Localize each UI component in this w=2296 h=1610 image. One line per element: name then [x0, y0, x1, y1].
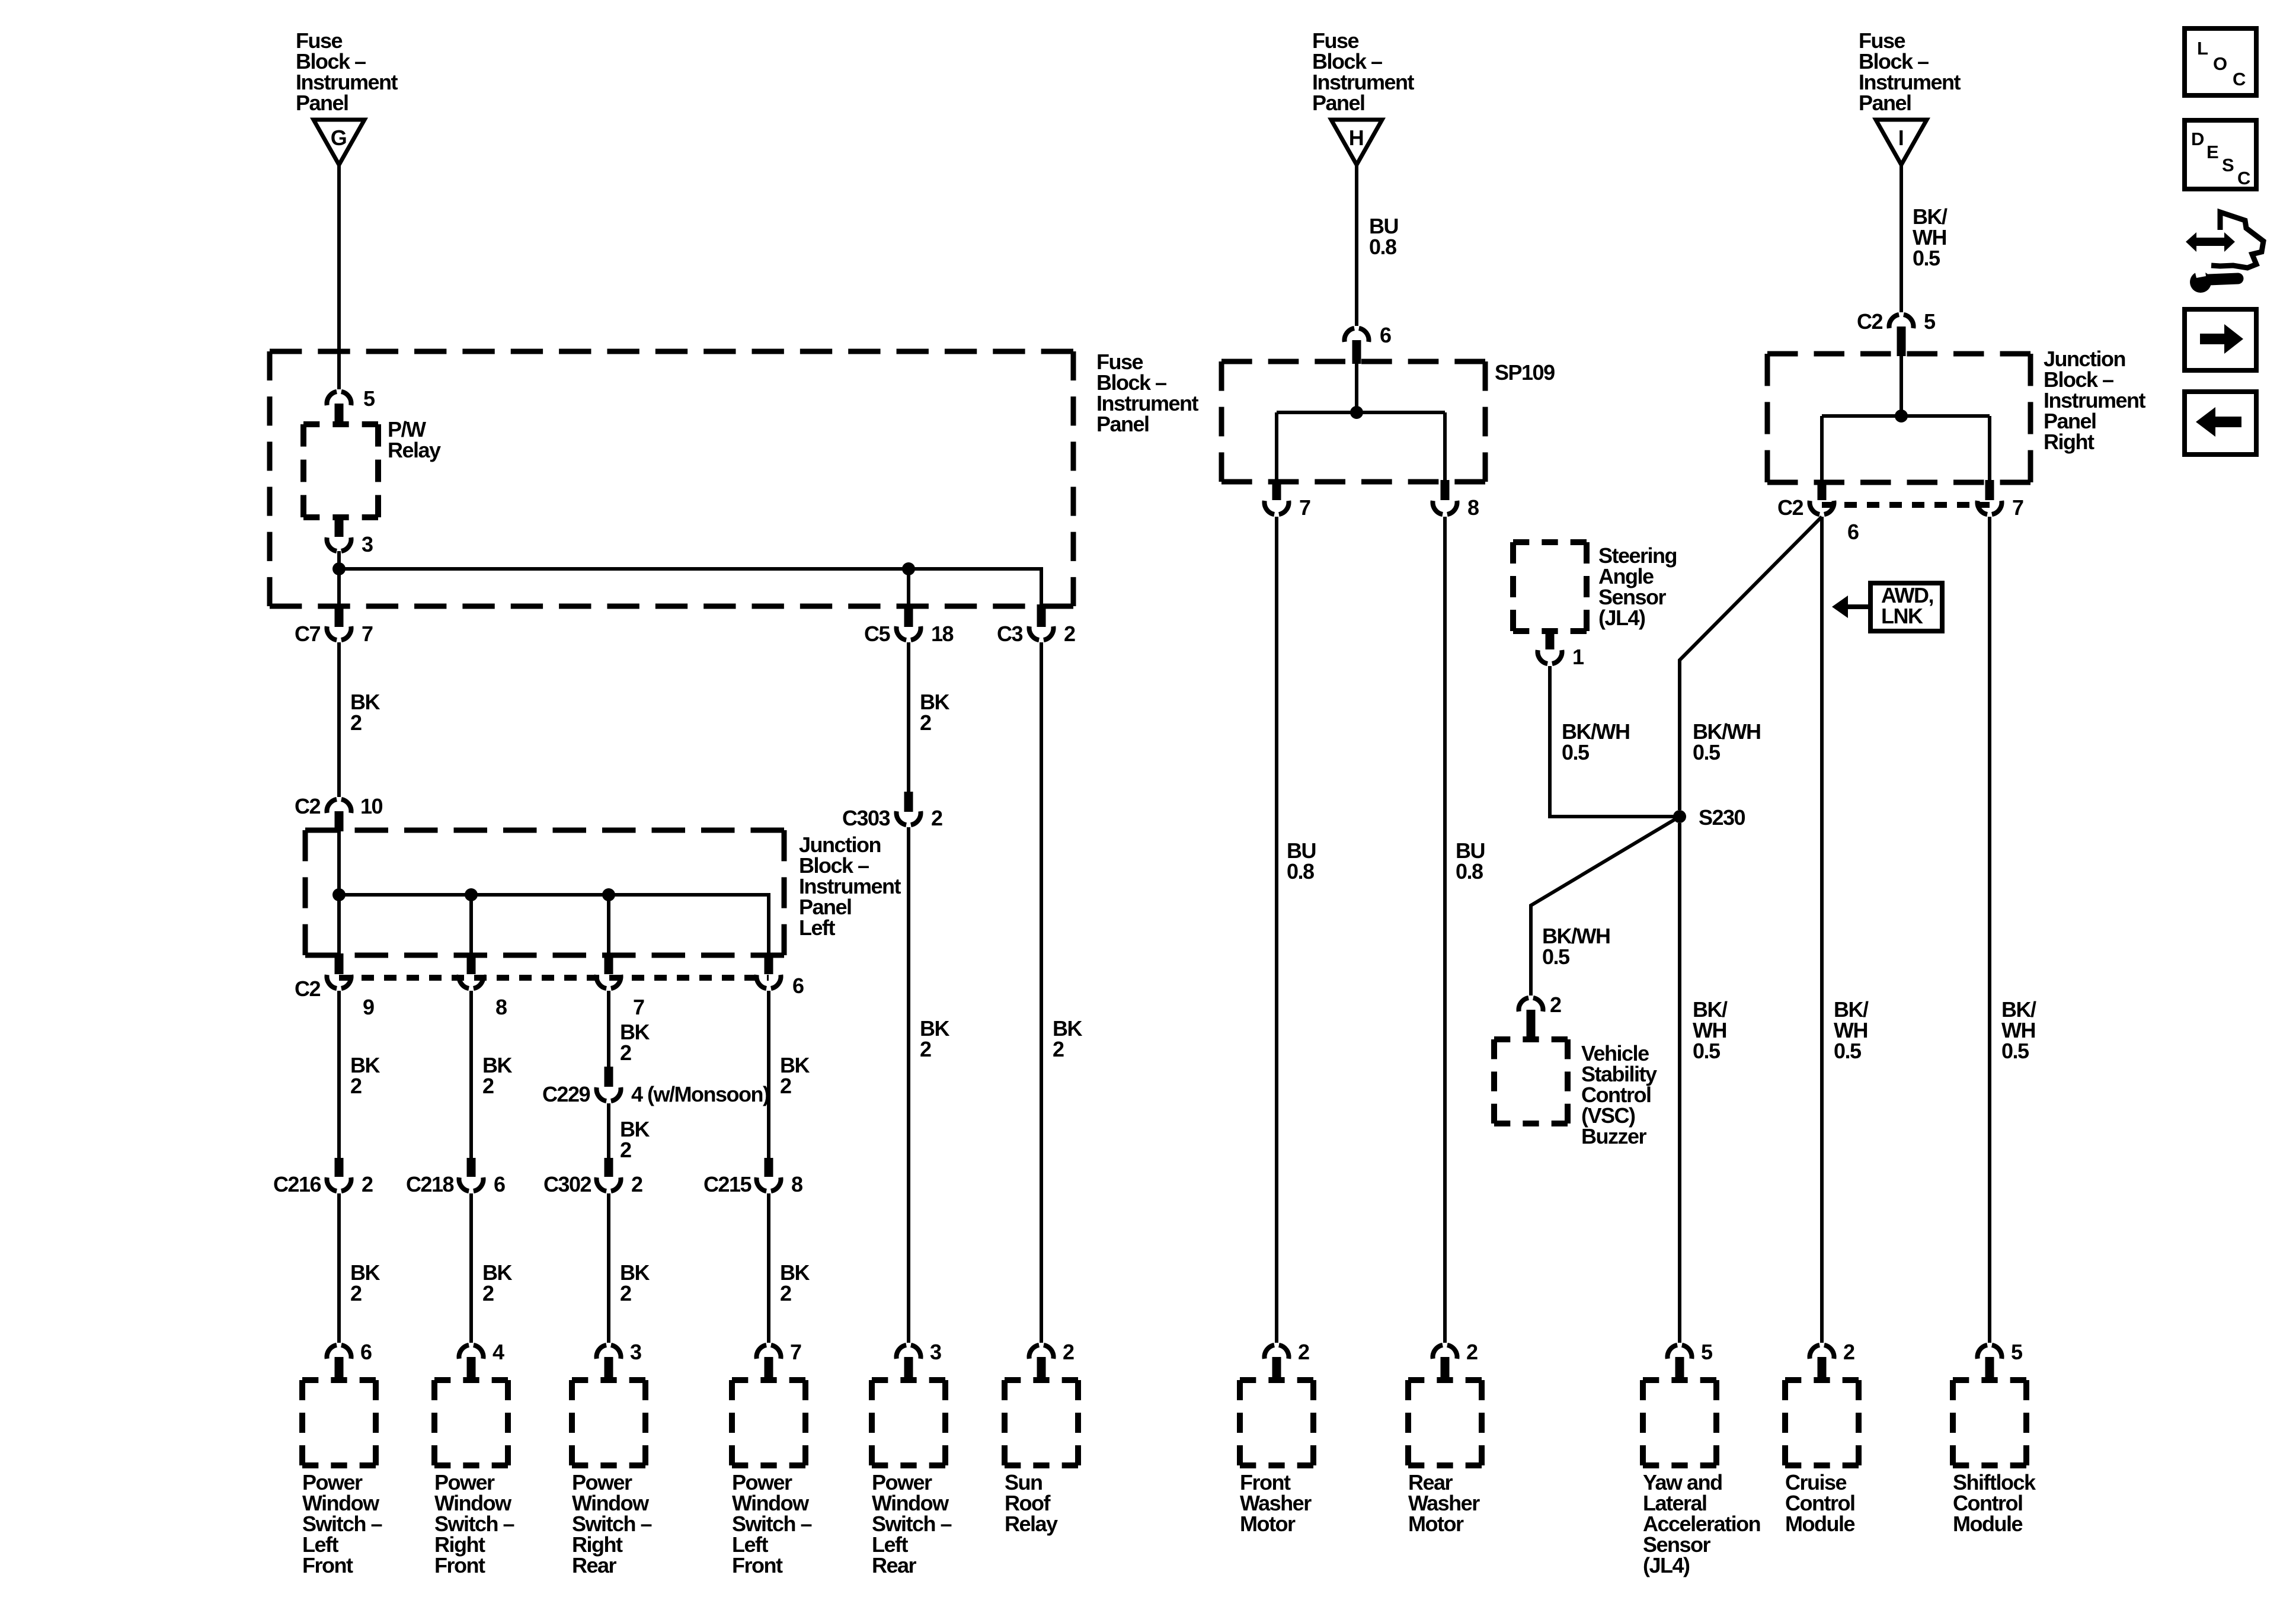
shiftlock control module dashed box: [1953, 1380, 2026, 1465]
connector pin 3 into power window switch - right rear: [596, 1340, 641, 1377]
svg-text:I: I: [1898, 126, 1904, 150]
node dot left bus col2: [465, 888, 478, 901]
P/W relay dashed box: [303, 424, 378, 517]
svg-text:2: 2: [362, 1172, 373, 1196]
wire C7 to C2 pin10, BK 2: [339, 642, 380, 797]
connector pin 7 out of SP109: [1264, 480, 1310, 520]
off-page connector triangle I: [1876, 120, 1927, 165]
node junction dot at C5 branch: [902, 562, 915, 575]
svg-text:2: 2: [780, 1074, 791, 1098]
power window switch - left front (2) label: [732, 1470, 812, 1577]
svg-text:0.5: 0.5: [1562, 740, 1590, 764]
connector C3 pin 2: [997, 604, 1075, 646]
svg-text:Front: Front: [434, 1553, 485, 1577]
svg-text:5: 5: [363, 386, 375, 411]
power window switch - right front label: [434, 1470, 514, 1577]
svg-text:5: 5: [2011, 1340, 2023, 1364]
diagonal wire C2-6 to S230, BK/WH 0.5: [1680, 517, 1822, 810]
svg-text:Buzzer: Buzzer: [1581, 1124, 1647, 1148]
SP109 right branch: [1443, 412, 1447, 482]
connector pin 6 into power window switch - left front: [327, 1340, 372, 1377]
wire SP109-8 to rear washer motor, BU 0.8: [1445, 517, 1485, 1343]
svg-text:8: 8: [1467, 495, 1479, 520]
connector pin 5 into shiftlock control module: [1977, 1340, 2023, 1377]
svg-text:2: 2: [920, 710, 931, 735]
wire SP109-7 to front washer motor, BU 0.8: [1277, 517, 1316, 1343]
connector C2 pin 10 into junction block left: [295, 794, 383, 831]
wire col3 C2 to C229, BK 2: [609, 991, 650, 1067]
connector C2 pin 5 into junction block right: [1857, 309, 1936, 356]
svg-text:2: 2: [620, 1281, 631, 1305]
svg-text:0.5: 0.5: [2001, 1039, 2029, 1063]
svg-text:6: 6: [360, 1340, 372, 1364]
svg-text:C2: C2: [295, 977, 320, 1001]
wire x=1297 to switch, BK 2: [769, 1193, 810, 1343]
svg-text:S230: S230: [1699, 805, 1745, 830]
svg-text:E: E: [2207, 142, 2218, 162]
svg-text:Panel: Panel: [1859, 91, 1911, 115]
P/W relay label: [388, 417, 441, 462]
connector pin 1 out of steering angle sensor: [1537, 629, 1584, 669]
svg-text:2: 2: [620, 1041, 631, 1065]
steering angle sensor label: [1598, 543, 1677, 630]
wire relay pin3 to internal bus: [337, 551, 341, 569]
svg-text:0.5: 0.5: [1693, 1039, 1721, 1063]
connector pin 2 into rear washer motor: [1432, 1340, 1478, 1377]
sun roof relay label: [1005, 1470, 1058, 1536]
svg-text:SP109: SP109: [1495, 360, 1555, 385]
svg-text:0.5: 0.5: [1913, 246, 1940, 270]
junction block - instrument panel left dashed box: [305, 830, 784, 955]
SP109 internal bus: [1277, 411, 1445, 414]
svg-text:Motor: Motor: [1240, 1512, 1296, 1536]
wire C2 pin10 to left bus: [337, 831, 341, 895]
wire steering sensor to S230, BK/WH 0.5: [1550, 666, 1680, 817]
wire S230 to yaw sensor, BK/ WH 0.5: [1680, 823, 1728, 1343]
svg-text:H: H: [1349, 126, 1364, 150]
junction block right right branch: [1988, 416, 1991, 482]
svg-text:Module: Module: [1785, 1512, 1854, 1536]
yaw and lateral acceleration sensor label: [1643, 1470, 1760, 1577]
fuse block instrument panel label (middle, ref H): [1312, 28, 1415, 115]
power window switch - left rear dashed box: [872, 1380, 945, 1465]
wire x=795 to switch, BK 2: [471, 1193, 512, 1343]
svg-text:C: C: [2237, 168, 2250, 188]
wire C5 to C303, BK 2: [909, 642, 949, 793]
DESC legend box: [2185, 120, 2256, 189]
svg-text:2: 2: [1063, 1340, 1074, 1364]
wire into SP109 to node: [1355, 360, 1358, 412]
connector C216 pin 2: [273, 1158, 373, 1196]
wire bus to fuse block bottom at C7: [337, 569, 341, 606]
svg-text:C2: C2: [1857, 309, 1882, 334]
wire bus down col3: [607, 895, 610, 955]
junction block - instrument panel right dashed box: [1767, 354, 2030, 482]
power window switch - right rear label: [572, 1470, 652, 1577]
front washer motor label: [1240, 1470, 1312, 1536]
node splice dot in SP109: [1350, 406, 1363, 419]
connector C2 pin 8: [459, 953, 507, 1019]
svg-text:2: 2: [780, 1281, 791, 1305]
svg-text:Panel: Panel: [1096, 412, 1149, 436]
junction block right internal bus: [1822, 414, 1990, 418]
svg-text:7: 7: [790, 1340, 801, 1364]
svg-text:0.5: 0.5: [1834, 1039, 1862, 1063]
svg-text:2: 2: [1053, 1037, 1064, 1061]
svg-text:O: O: [2213, 53, 2227, 74]
svg-text:3: 3: [362, 532, 373, 556]
svg-text:2: 2: [931, 806, 942, 830]
svg-text:6: 6: [1847, 520, 1859, 544]
svg-text:Panel: Panel: [296, 91, 348, 115]
svg-text:5: 5: [1701, 1340, 1713, 1364]
connector C2 pin 7: [596, 953, 644, 1019]
svg-text:C229: C229: [542, 1082, 590, 1106]
fuse block instrument panel label (left, off-page ref G): [296, 28, 398, 115]
cruise control module dashed box: [1785, 1380, 1859, 1465]
svg-text:3: 3: [930, 1340, 941, 1364]
svg-text:10: 10: [360, 794, 383, 818]
svg-text:2: 2: [1843, 1340, 1854, 1364]
wire col4 C2 to C215, BK 2: [769, 991, 810, 1158]
VSC buzzer label: [1581, 1041, 1657, 1148]
svg-text:L: L: [2197, 38, 2208, 59]
wire x=572 to switch, BK 2: [339, 1193, 380, 1343]
svg-text:7: 7: [1299, 495, 1310, 520]
svg-text:C215: C215: [703, 1172, 752, 1196]
svg-text:2: 2: [350, 1281, 362, 1305]
svg-text:2: 2: [920, 1037, 931, 1061]
junction block right left branch: [1820, 416, 1824, 482]
off-page connector triangle G: [314, 120, 364, 165]
vehicle stability control buzzer dashed box: [1494, 1039, 1568, 1124]
svg-text:2: 2: [620, 1138, 631, 1162]
connector C2 pin 6 out: [1777, 480, 1859, 544]
svg-text:Module: Module: [1953, 1512, 2022, 1536]
svg-text:Rear: Rear: [572, 1553, 617, 1577]
right arrow legend box: [2185, 309, 2256, 370]
svg-text:4: 4: [493, 1340, 504, 1364]
svg-text:Panel: Panel: [1312, 91, 1365, 115]
svg-text:2: 2: [350, 1074, 362, 1098]
sun roof relay dashed box: [1005, 1380, 1078, 1465]
node dot junction block right: [1895, 409, 1908, 422]
connector pin 5 into yaw and lateral acceleration sensor: [1667, 1340, 1713, 1377]
wire from triangle H to splice pack, BU 0.8: [1357, 165, 1398, 326]
connector pin 6 into SP109: [1344, 323, 1391, 364]
node junction dot at relay branch: [332, 562, 346, 575]
svg-text:LNK: LNK: [1881, 604, 1923, 628]
cruise control module label: [1785, 1470, 1854, 1536]
svg-text:8: 8: [791, 1172, 802, 1196]
svg-text:Rear: Rear: [872, 1553, 917, 1577]
left arrow legend box: [2185, 392, 2256, 454]
dotted connector line C2 right row: [1822, 502, 1990, 508]
connector pin 3 out of P/W relay: [327, 517, 373, 556]
wire C3 to sun roof relay, BK 2: [1041, 642, 1082, 1343]
svg-text:0.8: 0.8: [1369, 235, 1396, 259]
svg-text:D: D: [2191, 129, 2204, 149]
fuse block label (right of box): [1096, 350, 1199, 436]
svg-text:C3: C3: [997, 622, 1022, 646]
rear washer motor label: [1408, 1470, 1480, 1536]
svg-text:S: S: [2222, 155, 2234, 175]
SP109 label: [1495, 360, 1555, 385]
power window switch - left front (2) dashed box: [732, 1380, 805, 1465]
wire C303 to power window switch left rear, BK 2: [909, 827, 949, 1343]
svg-text:C216: C216: [273, 1172, 321, 1196]
fuse block instrument panel label (right, ref I): [1859, 28, 1961, 115]
svg-text:(JL4): (JL4): [1643, 1553, 1690, 1577]
svg-text:Right: Right: [2044, 430, 2094, 454]
svg-text:C303: C303: [842, 806, 890, 830]
power window switch - left front label: [302, 1470, 382, 1577]
power window switch - right front dashed box: [434, 1380, 508, 1465]
dotted connector line C2 row: [339, 975, 769, 981]
svg-text:8: 8: [495, 995, 507, 1019]
svg-text:2: 2: [1550, 993, 1561, 1017]
svg-text:6: 6: [792, 974, 804, 998]
svg-text:Left: Left: [799, 916, 836, 940]
svg-text:9: 9: [363, 995, 374, 1019]
connector pin 3 into power window switch - left rear: [896, 1340, 941, 1377]
svg-text:C2: C2: [1777, 495, 1803, 520]
svg-text:C7: C7: [295, 622, 320, 646]
connector pin 2 into cruise control module: [1809, 1340, 1854, 1377]
wire x=1027 to switch, BK 2: [609, 1193, 650, 1343]
wire C2-7 to shiftlock module, BK/ WH 0.5: [1990, 517, 2036, 1343]
svg-text:0.5: 0.5: [1693, 740, 1721, 764]
wire from triangle G to fuse block pin 5: [337, 165, 341, 389]
connector C302 pin 2: [543, 1158, 642, 1196]
connector pin 2 into front washer motor: [1264, 1340, 1309, 1377]
adjust/repair icon (double arrow, panel outline, wrench): [2186, 212, 2263, 293]
connector pin 7 into power window switch - left front (2): [756, 1340, 801, 1377]
junction block left internal bus: [339, 895, 769, 955]
off-page connector triangle H: [1331, 120, 1382, 165]
svg-text:4 (w/Monsoon): 4 (w/Monsoon): [631, 1082, 769, 1106]
SP109 left branch: [1275, 412, 1278, 482]
svg-text:Motor: Motor: [1408, 1512, 1464, 1536]
svg-text:Relay: Relay: [1005, 1512, 1058, 1536]
svg-text:G: G: [331, 126, 347, 150]
wire bus down col2: [469, 895, 473, 955]
front washer motor dashed box: [1240, 1380, 1313, 1465]
shiftlock control module label: [1953, 1470, 2036, 1536]
svg-text:2: 2: [482, 1281, 494, 1305]
connector C2 pin 6: [756, 953, 804, 998]
svg-text:(JL4): (JL4): [1598, 606, 1645, 630]
wire C2-6 to cruise control module, BK/ WH 0.5: [1822, 517, 1869, 1343]
wire into junction block right: [1900, 346, 1903, 416]
yaw and lateral acceleration sensor dashed box: [1643, 1380, 1716, 1465]
splice S230: [1673, 805, 1745, 830]
svg-text:6: 6: [1380, 323, 1391, 347]
rear washer motor dashed box: [1408, 1380, 1482, 1465]
svg-text:2: 2: [350, 710, 362, 735]
wire bus to fuse block bottom at C5: [907, 569, 910, 606]
connector C229 pin 4 (w/Monsoon): [542, 1067, 769, 1106]
connector C5 pin 18: [864, 604, 954, 646]
connector C2 pin 9: [295, 953, 374, 1019]
LOC legend box: [2185, 28, 2256, 95]
connector pin 8 out of SP109: [1432, 480, 1479, 520]
svg-text:2: 2: [631, 1172, 642, 1196]
junction block right label: [2044, 347, 2146, 454]
connector C2 pin 7 out: [1977, 480, 2023, 520]
svg-text:C302: C302: [543, 1172, 591, 1196]
svg-text:7: 7: [362, 622, 373, 646]
wire col1 C2 to C216, BK 2: [339, 991, 380, 1158]
connector C218 pin 6: [406, 1158, 505, 1196]
svg-text:7: 7: [2012, 495, 2023, 520]
svg-text:C5: C5: [864, 622, 890, 646]
svg-text:2: 2: [1466, 1340, 1478, 1364]
svg-text:C218: C218: [406, 1172, 454, 1196]
svg-text:0.5: 0.5: [1542, 945, 1570, 969]
power window switch - left rear label: [872, 1470, 952, 1577]
svg-text:C: C: [2233, 69, 2246, 89]
wire bus down col1: [337, 895, 341, 955]
wire C229 to C302, BK 2: [609, 1103, 650, 1162]
connector C215 pin 8: [703, 1158, 802, 1196]
svg-text:18: 18: [931, 622, 954, 646]
svg-text:3: 3: [630, 1340, 641, 1364]
svg-text:2: 2: [1064, 622, 1075, 646]
diagonal wire S230 to VSC buzzer, BK/WH 0.5: [1531, 817, 1680, 996]
fuse block - instrument panel dashed box: [270, 351, 1073, 606]
wire from triangle I to junction block right, BK/WH 0.5: [1901, 165, 1948, 312]
connector C303 pin 2: [842, 792, 942, 830]
svg-text:Front: Front: [732, 1553, 783, 1577]
connector pin 4 into power window switch - right front: [459, 1340, 504, 1377]
junction block left label: [799, 833, 901, 940]
power window switch - right rear dashed box: [572, 1380, 645, 1465]
connector pin 2 into sun roof relay: [1029, 1340, 1074, 1377]
svg-text:Front: Front: [302, 1553, 353, 1577]
svg-text:5: 5: [1924, 309, 1936, 334]
svg-text:1: 1: [1572, 645, 1584, 669]
internal bus wire in fuse block: [339, 569, 1041, 606]
svg-text:C2: C2: [295, 794, 320, 818]
AWD,LNK callout box with arrow: [1832, 583, 1942, 631]
node dot left bus col1: [332, 888, 346, 901]
svg-text:6: 6: [494, 1172, 505, 1196]
connector pin 2 into VSC buzzer: [1518, 993, 1561, 1042]
steering angle sensor dashed box: [1513, 542, 1587, 631]
svg-text:2: 2: [1298, 1340, 1309, 1364]
svg-text:Relay: Relay: [388, 438, 441, 462]
svg-text:2: 2: [482, 1074, 494, 1098]
node dot left bus col3: [602, 888, 615, 901]
svg-text:0.8: 0.8: [1456, 859, 1483, 884]
svg-text:0.8: 0.8: [1287, 859, 1314, 884]
splice pack SP109 dashed box: [1221, 361, 1485, 482]
power window switch - left front dashed box: [302, 1380, 376, 1465]
connector C7 pin 7: [295, 604, 373, 646]
connector pin 5 into P/W relay: [327, 386, 375, 423]
svg-text:7: 7: [633, 995, 644, 1019]
wire col2 C2 to C218, BK 2: [471, 991, 512, 1158]
